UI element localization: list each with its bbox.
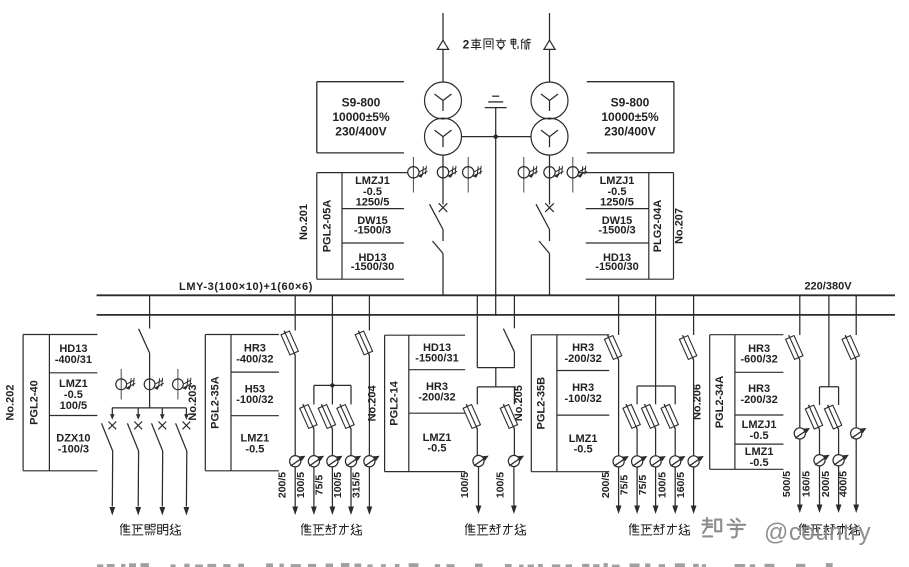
label 2车间变电所: [463, 38, 531, 52]
wire No.205 feeder 1 drop: [618, 295, 620, 335]
label 低压动力线 (No.203): [301, 524, 361, 535]
wire neutral link between transformers: [462, 136, 532, 138]
svg-text:200/5: 200/5: [600, 472, 612, 498]
wire center rail: [477, 387, 514, 405]
wire No.203 feeder 5: [368, 356, 370, 456]
output arrows No.205: [616, 467, 697, 514]
wire No.206 feeder 4: [855, 360, 857, 428]
svg-text:-100/32: -100/32: [236, 394, 273, 406]
panel table No.201 PGL2-05A: [298, 173, 408, 280]
wire No.206 bracket rail: [820, 387, 839, 405]
svg-text:-400/32: -400/32: [236, 354, 273, 366]
svg-text:75/5: 75/5: [618, 475, 630, 496]
svg-text:160/5: 160/5: [675, 472, 687, 498]
busbar phase bus: [97, 294, 895, 296]
svg-text:75/5: 75/5: [314, 475, 326, 496]
label 低压动力线 (center): [465, 524, 525, 535]
label busbar LMY-3(100×10)+1(60×6): [179, 281, 313, 293]
meter/CT No.206-3: [833, 455, 849, 466]
fuse FU No.203-1: [281, 331, 298, 356]
svg-text:100/5: 100/5: [494, 472, 506, 498]
wire No.206 feeder 1: [799, 360, 801, 428]
wire center tie: [477, 367, 514, 369]
svg-text:-100/3: -100/3: [58, 443, 89, 455]
current transformers No.202 (3x 100/5): [116, 368, 192, 408]
svg-text:PGL2-35B: PGL2-35B: [536, 377, 548, 430]
svg-text:1250/5: 1250/5: [356, 196, 390, 208]
fuse FU No.206-1: [786, 335, 803, 360]
wire center stub: [495, 368, 497, 387]
svg-text:-600/32: -600/32: [740, 354, 777, 366]
wire No.206 feeder 1 drop: [799, 295, 801, 335]
fuse FU No.205-5: [679, 335, 696, 360]
box left transformer spec S9-800: [317, 82, 404, 153]
svg-text:75/5: 75/5: [637, 475, 649, 496]
svg-text:400/5: 400/5: [837, 471, 849, 497]
meter/CT No.206-2: [814, 455, 830, 466]
wire No.206 feeder 4 drop: [855, 295, 857, 335]
svg-text:No.204: No.204: [367, 384, 379, 421]
output arrows center: [476, 467, 517, 514]
fuse FU No.205-2: [623, 404, 640, 429]
meters/CTs No.205 outputs (5x): [613, 456, 704, 467]
svg-text:500/5: 500/5: [781, 471, 793, 497]
cropped text row at bottom edge: [97, 563, 833, 567]
wire No.205 bracket rail: [637, 386, 675, 404]
wire T1 secondary lead: [442, 155, 444, 204]
svg-text:230/400V: 230/400V: [604, 125, 655, 139]
box right transformer spec S9-800: [587, 82, 674, 153]
svg-text:S9-800: S9-800: [342, 96, 381, 110]
fuse FU No.206-2: [805, 405, 822, 430]
svg-text:-200/32: -200/32: [564, 353, 601, 365]
wire center drop A: [476, 295, 478, 367]
svg-text:200/5: 200/5: [276, 472, 288, 498]
svg-text:100/5: 100/5: [295, 472, 307, 498]
node No.203 junction: [330, 383, 336, 389]
fuse FU No.206-3: [824, 405, 841, 430]
svg-text:No.203: No.203: [187, 385, 199, 421]
fuse FU No.206-4: [842, 335, 859, 360]
svg-text:315/5: 315/5: [351, 472, 363, 498]
wire No.202 feeder drop: [149, 295, 151, 328]
svg-text:-1500/30: -1500/30: [595, 261, 638, 273]
svg-text:-400/31: -400/31: [55, 354, 92, 366]
svg-text:-0.5: -0.5: [245, 444, 264, 456]
svg-text:-0.5: -0.5: [574, 444, 593, 456]
svg-text:LMY-3(100×10)+1(60×6): LMY-3(100×10)+1(60×6): [179, 281, 313, 293]
fuse FU No.203-5: [355, 331, 372, 356]
wire No.205 center drop: [655, 295, 657, 404]
svg-text:100/5: 100/5: [332, 472, 344, 498]
circuit breaker DW15 + isolator HD13 (right incomer): [536, 203, 554, 295]
fuse FU No.205-3: [641, 404, 658, 429]
isolator knife switch No.202: [139, 329, 150, 368]
panel table No.204 PGL2-14: [367, 335, 466, 471]
svg-text:230/400V: 230/400V: [335, 125, 386, 139]
labels CT ratios No.206: [781, 471, 849, 497]
svg-text:-1500/3: -1500/3: [354, 225, 391, 237]
svg-text:PLG2-04A: PLG2-04A: [652, 200, 664, 253]
svg-text:-1500/31: -1500/31: [415, 353, 458, 365]
output arrows No.203: [292, 467, 372, 515]
current transformers TA1 (left incomer, 3x): [408, 157, 483, 193]
svg-text:10000±5%: 10000±5%: [601, 110, 659, 124]
svg-text:S9-800: S9-800: [611, 96, 650, 110]
delta winding symbol right incomer: [544, 40, 555, 49]
wire No.203 center drop: [331, 295, 333, 404]
wire No.206 center drop: [828, 295, 830, 387]
wire T2 secondary lead: [549, 155, 551, 204]
wires No.205 branch mid: [637, 429, 675, 456]
svg-text:160/5: 160/5: [801, 471, 813, 497]
wire No.205 feeder 5: [693, 360, 695, 456]
panel table No.202 PGL2-40: [5, 335, 98, 471]
circuit breaker DW15 + isolator HD13 (left incomer): [430, 203, 448, 295]
isolator knife switch center: [503, 329, 514, 368]
label 低压照明线: [120, 524, 180, 535]
svg-text:-0.5: -0.5: [750, 430, 769, 442]
wires No.203 branch mid: [314, 429, 351, 456]
panel table No.207 PLG2-04A: [579, 173, 686, 280]
fuse FU No.205-4: [661, 404, 678, 429]
svg-text:-1500/30: -1500/30: [351, 261, 394, 273]
svg-text:PGL2-34A: PGL2-34A: [714, 376, 726, 429]
panel table No.206 PGL2-34A: [692, 335, 784, 470]
wire center drop B upper: [513, 295, 515, 328]
panel table No.205 PGL2-35B: [513, 335, 609, 472]
wires No.206 branch mid: [820, 430, 839, 455]
labels CT ratios No.203: [276, 472, 362, 498]
fuse FU No.205-1: [604, 335, 621, 360]
transformer T1 (left, Y-Y): [425, 82, 462, 155]
meter/CT No.206-1: [794, 428, 810, 439]
wire No.202 distribution rail: [112, 407, 186, 409]
svg-text:200/5: 200/5: [820, 471, 832, 497]
fuse FU No.203-4: [337, 404, 354, 429]
wire No.205 feeder 5 drop: [693, 295, 695, 335]
ground symbol (neutral earthing): [485, 96, 507, 136]
wire incoming feeder right: [549, 13, 551, 83]
labels CT ratios No.205: [600, 472, 687, 498]
fuse FU center-2: [500, 404, 517, 429]
svg-text:-0.5: -0.5: [750, 457, 769, 469]
svg-text:PGL2-05A: PGL2-05A: [322, 200, 334, 253]
meter/CT center-1: [473, 455, 489, 466]
label 低压动力线 (No.206): [799, 524, 859, 535]
svg-text:-200/32: -200/32: [418, 392, 455, 404]
wires center branches: [477, 429, 514, 456]
svg-text:-0.5: -0.5: [428, 443, 447, 455]
output arrows No.206 mid: [817, 466, 842, 513]
svg-text:-200/32: -200/32: [740, 394, 777, 406]
svg-text:100/5: 100/5: [656, 472, 668, 498]
svg-text:-100/32: -100/32: [564, 393, 601, 405]
meter/CT No.206-4: [851, 428, 867, 439]
svg-text:2: 2: [463, 38, 470, 52]
label 220/380V: [804, 281, 852, 293]
wire No.206 feeder 1 lower: [797, 439, 803, 513]
wire No.203 bracket rail: [314, 385, 351, 404]
current transformers TA2 (right incomer, 3x): [518, 157, 587, 193]
breakers DZX10 branch outputs No.202 (4x): [102, 408, 191, 516]
fuse FU No.203-3: [318, 404, 335, 429]
svg-text:-1500/3: -1500/3: [598, 225, 635, 237]
meters/CTs No.203 outputs (5x): [290, 456, 380, 467]
watermark 知乎 @country: [702, 518, 871, 546]
wire incoming feeder left: [442, 13, 444, 83]
svg-text:No.202: No.202: [5, 385, 17, 421]
label 低压动力线 (No.205): [629, 524, 689, 535]
busbar neutral bus: [97, 314, 895, 316]
svg-text:PGL2-35A: PGL2-35A: [210, 376, 222, 429]
svg-text:No.201: No.201: [298, 204, 310, 240]
wire No.203 feeder 5 drop: [368, 295, 370, 330]
svg-text:PGL2-14: PGL2-14: [389, 380, 401, 426]
svg-text:PGL2-40: PGL2-40: [29, 380, 41, 425]
svg-text:No.207: No.207: [674, 208, 686, 244]
wire No.203 feeder 1: [294, 356, 296, 456]
transformer T2 (right, Y-Y): [531, 82, 568, 155]
fuse FU center-1: [463, 404, 480, 429]
wire No.206 feeder 4 lower: [853, 439, 859, 513]
svg-text:220/380V: 220/380V: [804, 281, 852, 293]
meter/CT center-2: [508, 455, 524, 466]
svg-text:100/5: 100/5: [60, 400, 88, 412]
delta winding symbol left incomer: [437, 40, 448, 49]
panel table No.203 PGL2-35A: [187, 335, 279, 471]
node neutral junction: [493, 134, 499, 140]
wire No.205 feeder 1: [618, 360, 620, 456]
labels CT ratios center: [459, 472, 507, 498]
wire center line to bus: [495, 137, 497, 316]
fuse FU No.203-2: [300, 404, 317, 429]
svg-text:1250/5: 1250/5: [600, 196, 634, 208]
svg-text:@country: @country: [764, 519, 871, 546]
wire No.203 feeder 1 drop: [294, 295, 296, 330]
svg-text:100/5: 100/5: [459, 472, 471, 498]
svg-text:10000±5%: 10000±5%: [332, 110, 390, 124]
